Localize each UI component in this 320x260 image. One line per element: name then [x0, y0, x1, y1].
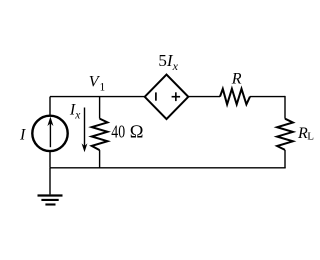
wire R to top-right corner — [250, 96, 285, 98]
ground — [38, 196, 63, 205]
wire bottom rail — [50, 167, 286, 169]
Ix arrow (downward) — [82, 108, 88, 153]
wire left rail upper (source to top) — [49, 97, 51, 115]
resistor RL (vertical zigzag) — [277, 119, 293, 150]
svg-text:40: 40 — [111, 121, 125, 141]
wire left rail lower (source to bottom) — [49, 152, 51, 168]
plus terminal mark — [172, 92, 181, 101]
svg-text:I: I — [19, 126, 26, 143]
minus terminal mark (vertical bar) — [155, 92, 157, 100]
resistor R (horizontal zigzag) — [220, 89, 250, 105]
current source arrow (upward) — [47, 117, 53, 148]
wire node V1 drop to 40ohm resistor — [99, 97, 101, 119]
wire ground stem — [49, 168, 51, 195]
wire right rail upper — [284, 96, 286, 119]
resistor 40ohm (vertical zigzag) — [92, 119, 108, 151]
svg-text:Ix: Ix — [69, 101, 81, 121]
wire right rail lower — [284, 150, 286, 168]
wire 40ohm resistor to bottom rail — [99, 150, 101, 168]
svg-text:Ω: Ω — [130, 122, 144, 142]
wire diamond to R — [188, 96, 220, 98]
svg-text:R: R — [231, 71, 242, 88]
dependent source U1 (diamond, 5Ix) — [145, 75, 189, 120]
wire top-left segment (node V1 rail) — [50, 96, 145, 98]
current source I (circle) — [32, 116, 67, 151]
svg-text:5Ix: 5Ix — [158, 51, 178, 73]
svg-text:V1: V1 — [89, 74, 106, 94]
svg-text:RL: RL — [297, 125, 314, 143]
